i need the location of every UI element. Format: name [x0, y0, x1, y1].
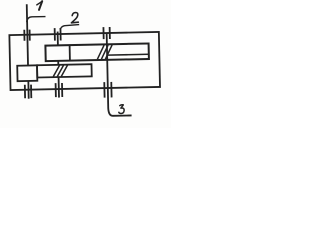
hatch stroke 1 on lower block (mesh with shaft 2) — [53, 65, 60, 76]
shaft 2 upper segment — [57, 32, 59, 46]
inner step line of upper gear block (right end) — [108, 53, 149, 56]
housing (gearbox case) — [9, 32, 160, 90]
shaft 1 lower segment — [27, 81, 29, 99]
hatch stroke 3 on upper block — [105, 45, 112, 59]
bearing on shaft 1, bottom wall, left tick — [24, 85, 26, 98]
leader line for label 2 — [61, 25, 80, 29]
divider inside upper gear block — [69, 45, 71, 60]
gear on shaft 1 (lower-left block) — [17, 65, 37, 81]
hatch stroke 1 on upper block (mesh with shaft 3) — [97, 45, 104, 59]
hatch stroke 2 on upper block — [101, 45, 108, 59]
bearing on shaft 2, bottom wall, right tick — [61, 83, 63, 97]
bearing on shaft 3, top wall, left tick — [102, 27, 104, 39]
gear block on shaft 2 (lower rectangle, right cell) — [37, 64, 92, 77]
shaft 1 (input, vertical) upper segment — [27, 4, 28, 65]
bearing on shaft 3, bottom wall, left tick — [103, 82, 105, 97]
bearing on shaft 2, top wall, left tick — [54, 28, 56, 40]
hatch stroke 3 on lower block — [61, 65, 68, 76]
bearing on shaft 1, top wall, left tick — [23, 30, 25, 41]
bearing on shaft 3, bottom wall, right tick — [110, 82, 112, 97]
shaft 2 lower segment — [58, 77, 60, 97]
shaft 2 middle segment — [57, 61, 59, 65]
gear block on shaft 2 (long upper rectangle) — [45, 43, 149, 61]
label 1 (shaft number), drawn as strokes — [39, 1, 42, 10]
bearing on shaft 1, bottom wall, right tick — [30, 85, 32, 98]
bearing on shaft 2, bottom wall, left tick — [55, 83, 57, 97]
bearing on shaft 2, top wall, right tick — [59, 28, 61, 40]
bearing on shaft 3, top wall, right tick — [109, 27, 111, 39]
shaft 3 (output, vertical with elbow tail) — [107, 33, 132, 116]
label 3 (shaft number), drawn as strokes — [119, 105, 124, 114]
label 2 (shaft number), drawn as strokes — [71, 13, 78, 23]
hatch stroke 2 on lower block — [57, 65, 64, 76]
bearing on shaft 1, top wall, right tick — [29, 30, 31, 41]
leader line for label 1 — [27, 17, 46, 23]
